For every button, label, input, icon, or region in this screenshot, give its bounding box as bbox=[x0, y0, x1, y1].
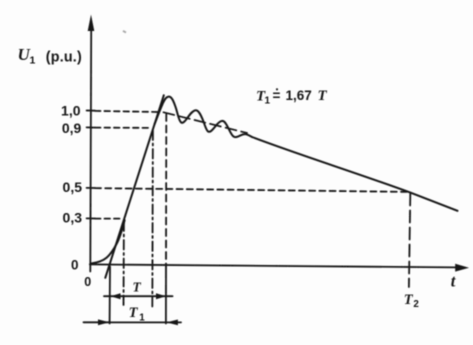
svg-text:0: 0 bbox=[71, 258, 79, 273]
svg-text:1,67: 1,67 bbox=[286, 88, 312, 103]
svg-text:1,0: 1,0 bbox=[61, 102, 81, 118]
T1 right arrowhead bbox=[166, 320, 178, 326]
T1 dimension line left part bbox=[84, 321, 110, 323]
T dimension line bbox=[104, 295, 173, 297]
wave tail line bbox=[252, 137, 458, 211]
svg-text:0,9: 0,9 bbox=[62, 120, 82, 136]
T dimension right arrowhead bbox=[156, 293, 166, 299]
dashed level line 0,3 bbox=[95, 218, 123, 220]
T1 dimension line right part bbox=[166, 321, 181, 323]
y-axis arrowhead bbox=[88, 15, 95, 32]
dashed level line 0,5 bbox=[95, 188, 410, 192]
svg-text:1: 1 bbox=[30, 55, 36, 67]
svg-text:T: T bbox=[129, 305, 139, 321]
tick 0,3 bbox=[87, 217, 95, 219]
tick 0,5 bbox=[87, 187, 95, 189]
curve toe (wavefront start) bbox=[91, 220, 125, 263]
svg-text:T: T bbox=[318, 88, 328, 104]
dashed vertical at crest bbox=[165, 114, 167, 265]
dashed level line 0,9 bbox=[95, 127, 152, 129]
oscillation at crest bbox=[155, 97, 252, 137]
x-axis arrowhead bbox=[455, 264, 469, 272]
tick 1,0 bbox=[87, 110, 95, 112]
front tangent line through virtual origin bbox=[105, 95, 164, 277]
svg-text:0,3: 0,3 bbox=[63, 210, 83, 226]
svg-text:T: T bbox=[404, 292, 414, 308]
svg-text:0: 0 bbox=[84, 275, 91, 289]
x-axis bbox=[90, 264, 456, 267]
solid vertical at virtual origin O1 bbox=[109, 267, 111, 324]
svg-text:T: T bbox=[133, 279, 142, 294]
solid vertical at crest below axis bbox=[165, 265, 167, 324]
svg-text:1: 1 bbox=[265, 95, 271, 106]
dashed vertical at T2 bbox=[409, 194, 410, 288]
tick 0,9 bbox=[87, 126, 95, 128]
svg-text:1: 1 bbox=[139, 312, 145, 323]
T1 dimension line span bbox=[110, 321, 167, 323]
svg-text:(p.u.): (p.u.) bbox=[46, 50, 82, 66]
scan speck bbox=[122, 30, 126, 33]
T dimension left arrowhead bbox=[111, 293, 121, 299]
svg-text:t: t bbox=[451, 272, 456, 291]
y-axis bbox=[89, 30, 92, 272]
dash-dot vertical at 90% point bbox=[151, 131, 154, 309]
dashed level line 1,0 bbox=[95, 111, 159, 112]
mean curve through oscillations (dashed) bbox=[164, 112, 248, 133]
T1 left arrowhead bbox=[98, 319, 110, 325]
svg-text:2: 2 bbox=[413, 299, 419, 310]
svg-text:0,5: 0,5 bbox=[63, 179, 83, 195]
dash-dot vertical at 30% point bbox=[123, 222, 125, 309]
